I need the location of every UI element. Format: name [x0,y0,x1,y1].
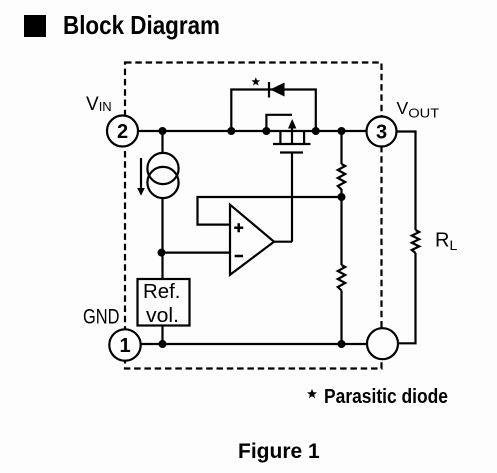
svg-text:VIN: VIN [86,94,112,115]
svg-text:1: 1 [119,335,130,357]
svg-text:Block Diagram: Block Diagram [63,10,220,40]
svg-text:vol.: vol. [146,305,179,327]
svg-text:2: 2 [117,121,128,143]
svg-text:3: 3 [376,122,387,144]
svg-text:GND: GND [83,306,120,329]
svg-text:Figure 1: Figure 1 [238,440,320,463]
svg-text:RL: RL [435,230,457,254]
svg-text:VOUT: VOUT [397,98,440,121]
svg-text:Parasitic diode: Parasitic diode [324,386,448,408]
svg-text:Ref.: Ref. [143,281,181,303]
